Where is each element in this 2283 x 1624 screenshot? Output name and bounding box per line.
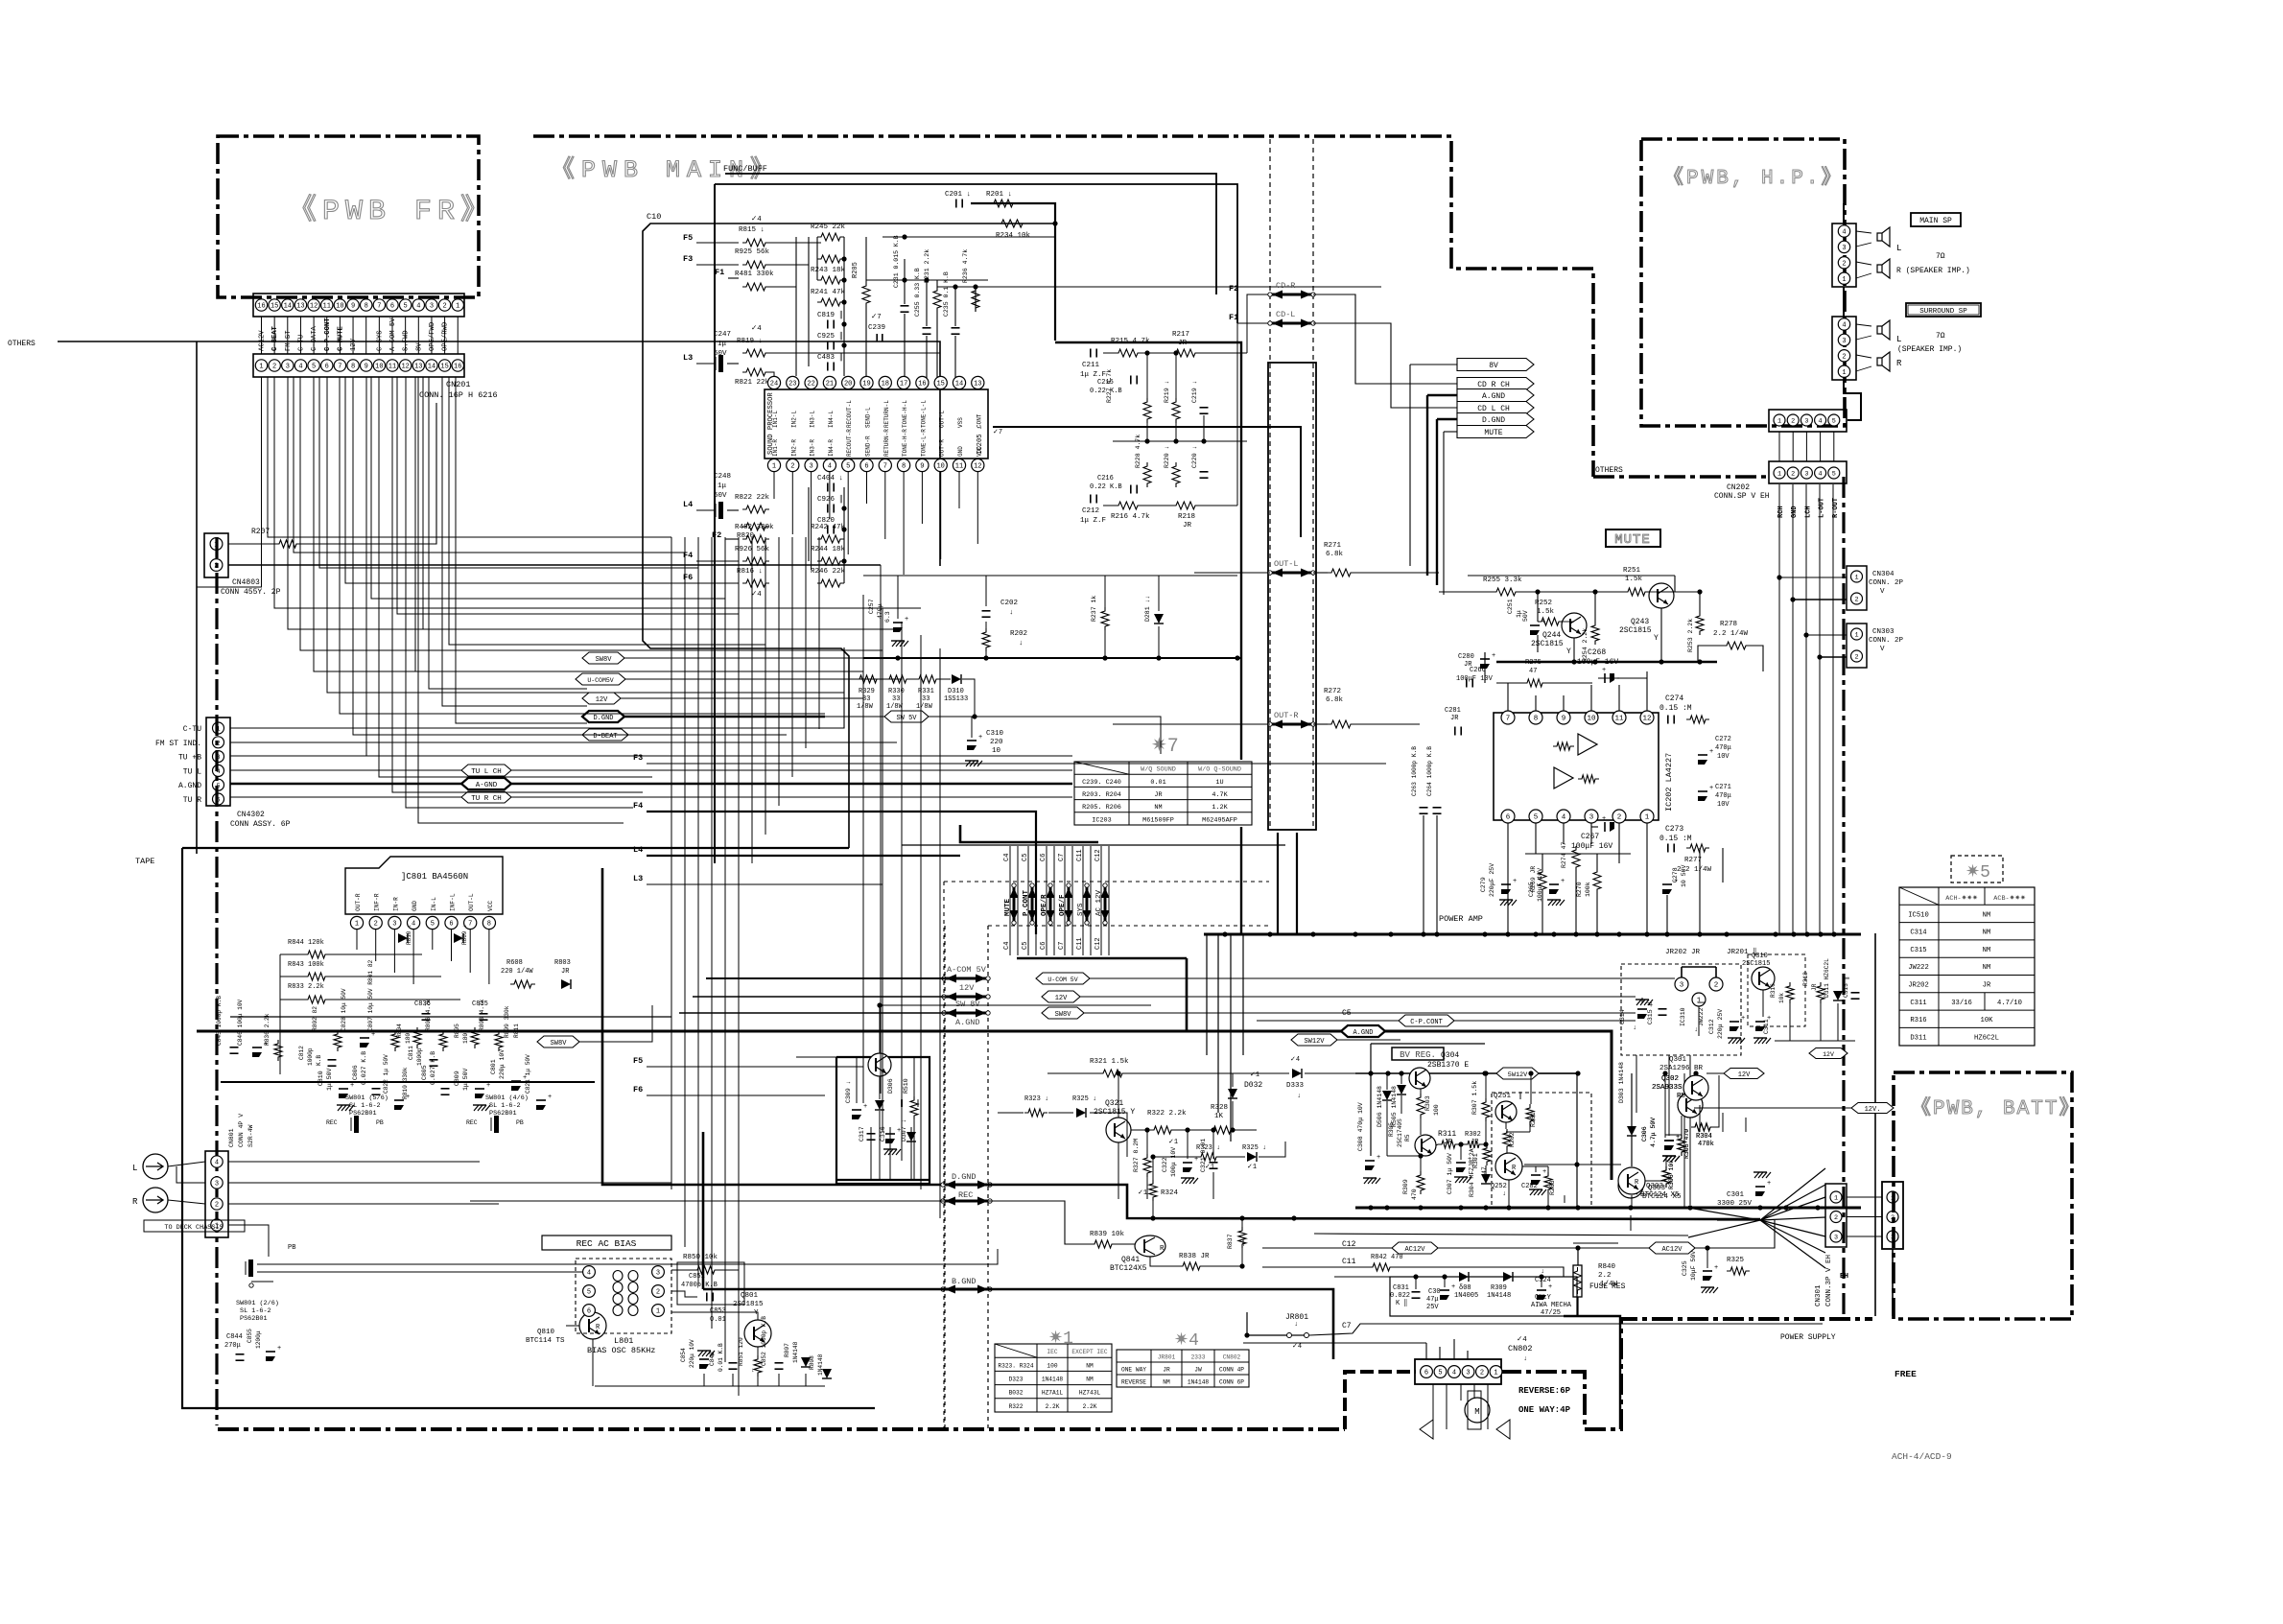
svg-text:15: 15 — [936, 381, 944, 388]
svg-text:F4: F4 — [633, 801, 643, 811]
svg-text:IN-L: IN-L — [431, 897, 437, 911]
svg-text:12V: 12V — [350, 338, 358, 351]
svg-text:10: 10 — [375, 364, 383, 371]
svg-text:+: + — [1492, 652, 1495, 660]
flag TU R CH — [230, 796, 1072, 798]
svg-text:5: 5 — [1832, 471, 1836, 479]
svg-text:C822 1μ 50V: C822 1μ 50V — [383, 1054, 389, 1094]
svg-text:10k: 10k — [1778, 993, 1785, 1003]
svg-text:6: 6 — [587, 1308, 591, 1316]
wire regulator feeds — [796, 1056, 836, 1058]
svg-text:10V: 10V — [1717, 801, 1730, 809]
svg-text:5: 5 — [1534, 814, 1539, 822]
svg-text:R: R — [1896, 359, 1902, 368]
svg-text:EXCEPT IEC: EXCEPT IEC — [1071, 1349, 1107, 1355]
wire to 5P connector — [1844, 380, 1861, 420]
L801 coils — [613, 1271, 623, 1282]
IC801 pin 6 — [445, 916, 458, 929]
svg-text:14: 14 — [284, 303, 292, 311]
wires CN202 down — [1778, 484, 1780, 577]
wires IC205 pins down — [773, 472, 775, 499]
svg-text:NM: NM — [1983, 964, 1991, 972]
svg-text:8: 8 — [351, 364, 355, 371]
svg-text:REC: REC — [326, 1119, 338, 1126]
connector CN801 4P — [205, 1151, 228, 1237]
svg-text:R842 470: R842 470 — [1371, 1254, 1403, 1261]
svg-text:C311: C311 — [1910, 1000, 1926, 1007]
svg-text:R325 ↓: R325 ↓ — [1242, 1144, 1266, 1152]
svg-text:JW: JW — [1194, 1367, 1202, 1374]
connector CN303 — [1847, 624, 1867, 668]
svg-text:2: 2 — [215, 1202, 219, 1210]
svg-text:1: 1 — [1834, 1195, 1838, 1203]
svg-text:F3: F3 — [633, 753, 643, 763]
svg-text:IN4-R: IN4-R — [828, 439, 835, 457]
svg-text:7Ω: 7Ω — [1936, 332, 1945, 341]
svg-text:GND: GND — [1791, 506, 1799, 518]
svg-text:CD-L: CD-L — [1276, 310, 1295, 319]
svg-text:0.15 :M: 0.15 :M — [1659, 704, 1692, 713]
svg-text:PS62B01: PS62B01 — [240, 1315, 268, 1323]
svg-text:C-MUTE: C-MUTE — [337, 325, 344, 351]
svg-text:BTC114 TS: BTC114 TS — [526, 1337, 565, 1345]
wires C202 block — [897, 576, 899, 619]
svg-text:CONT: CONT — [976, 413, 982, 428]
svg-text:100μF 16V: 100μF 16V — [1577, 658, 1618, 667]
svg-text:C846 100μ 10V: C846 100μ 10V — [237, 999, 244, 1046]
svg-text:3: 3 — [809, 463, 812, 471]
note *5 label — [1951, 856, 2003, 883]
svg-text:1: 1 — [656, 1308, 660, 1316]
svg-text:+: + — [1451, 1283, 1455, 1291]
capacitor C220 vertical — [1200, 471, 1209, 473]
svg-text:9: 9 — [920, 463, 924, 471]
op-amp U-upper — [1578, 734, 1597, 755]
svg-text:BTC124X5: BTC124X5 — [1110, 1264, 1147, 1273]
svg-text:POWER AMP: POWER AMP — [1439, 914, 1483, 924]
svg-text:3: 3 — [1466, 1370, 1470, 1377]
svg-text:C30: C30 — [1428, 1288, 1441, 1296]
svg-text:CONN. 16P H 6216: CONN. 16P H 6216 — [419, 390, 498, 400]
svg-text:7: 7 — [468, 921, 472, 929]
IC205 pin 22 — [805, 376, 817, 388]
wires 5P to CN202 — [1778, 432, 1780, 461]
L801 transformer dashed box — [576, 1259, 671, 1333]
svg-text:1: 1 — [1842, 276, 1846, 284]
svg-text:+: + — [1548, 1283, 1552, 1291]
svg-text:C853: C853 — [710, 1307, 726, 1315]
transistor Q321 — [1106, 1118, 1131, 1142]
svg-text:1: 1 — [1777, 418, 1781, 426]
svg-text:HZ6C2L: HZ6C2L — [1974, 1034, 1999, 1042]
svg-text:10K: 10K — [1981, 1017, 1994, 1024]
svg-text:4.7/10: 4.7/10 — [1997, 1000, 2022, 1007]
svg-text:2: 2 — [1791, 418, 1795, 426]
svg-text:Q251: Q251 — [1494, 1093, 1512, 1100]
svg-text:+: + — [1542, 619, 1545, 626]
svg-text:R: R — [132, 1197, 138, 1207]
svg-text:↓: ↓ — [751, 1367, 755, 1374]
IC205 pin 21 — [823, 376, 836, 388]
svg-text:C263 1000p K.B: C263 1000p K.B — [1411, 746, 1418, 796]
IC801 pin 1 — [350, 916, 363, 929]
IC801 pin 2 — [369, 916, 382, 929]
svg-text:50V: 50V — [1522, 610, 1529, 622]
svg-text:2333: 2333 — [1191, 1354, 1206, 1361]
svg-text:R218: R218 — [1178, 513, 1195, 521]
transistor Q303 — [1618, 1173, 1643, 1198]
svg-text:5: 5 — [846, 463, 850, 471]
resistor R821 — [742, 368, 769, 376]
svg-text:✷7: ✷7 — [1151, 736, 1179, 758]
wire CN4803 pin2 — [228, 564, 881, 566]
svg-text:220 1/4W: 220 1/4W — [501, 968, 533, 976]
svg-text:5: 5 — [312, 364, 316, 371]
svg-text:16: 16 — [918, 381, 926, 388]
svg-text:R482 330k: R482 330k — [735, 524, 774, 531]
PWB FR board outline — [218, 136, 479, 297]
wire heavy L from IC205 out — [993, 427, 1301, 537]
svg-text:HZ7A1L: HZ7A1L — [1042, 1390, 1064, 1397]
svg-text:2SC1815: 2SC1815 — [1531, 640, 1564, 648]
svg-text:1μ Z.F: 1μ Z.F — [1080, 371, 1106, 379]
wire SW5V right — [975, 717, 1161, 754]
svg-text:✓4: ✓4 — [1292, 1343, 1302, 1351]
svg-text:SW12V: SW12V — [1304, 1038, 1325, 1046]
svg-text:D333: D333 — [1286, 1082, 1305, 1090]
svg-text:0.022: 0.022 — [1390, 1292, 1410, 1300]
svg-text:W/Q SOUND: W/Q SOUND — [1141, 766, 1176, 774]
svg-text:R804: R804 — [396, 1024, 403, 1038]
wire thin pair to funnel — [1314, 1234, 1688, 1236]
svg-text:L: L — [132, 1164, 137, 1173]
svg-text:R820 ↓: R820 ↓ — [737, 532, 763, 540]
svg-text:C805: C805 — [421, 1065, 428, 1080]
svg-text:MUTE: MUTE — [1614, 532, 1651, 548]
svg-text:R510: R510 — [903, 1078, 909, 1094]
svg-text:RETURN-R: RETURN-R — [883, 429, 890, 457]
svg-text:+: + — [978, 734, 982, 741]
connector CN201 upper row — [253, 294, 464, 317]
main board bottom boundary — [218, 1427, 1345, 1431]
svg-text:6: 6 — [1506, 814, 1511, 822]
connector CN201 lower row — [253, 354, 464, 377]
svg-text:1N4148: 1N4148 — [817, 1353, 824, 1376]
svg-text:1: 1 — [259, 364, 263, 371]
svg-text:D-BEAT: D-BEAT — [593, 733, 617, 741]
svg-text:10: 10 — [936, 463, 944, 471]
svg-text:SW 8V: SW 8V — [955, 1000, 980, 1009]
svg-text:5: 5 — [1832, 418, 1836, 426]
cable bus bottom rail — [1017, 957, 1187, 960]
svg-text:R811: R811 — [513, 1024, 520, 1038]
svg-text:RECOUT-L: RECOUT-L — [846, 400, 853, 428]
svg-text:REC AC BIAS: REC AC BIAS — [577, 1238, 637, 1249]
svg-text:13: 13 — [974, 381, 981, 388]
IC801 pin 3 — [388, 916, 401, 929]
svg-text:220μ 10V: 220μ 10V — [499, 1049, 506, 1079]
svg-text:C202: C202 — [1000, 600, 1018, 607]
svg-text:A.GND: A.GND — [1482, 392, 1505, 401]
IC205 pin 2 — [787, 459, 799, 471]
IC202 pin 10 — [1585, 711, 1598, 724]
IC205 pin 23 — [787, 376, 799, 388]
svg-text:IN4-L: IN4-L — [828, 411, 835, 428]
svg-text:IN3-L: IN3-L — [810, 411, 816, 428]
wires IC310 block — [1641, 998, 1643, 1003]
flag A-GND — [230, 783, 1072, 786]
svg-text:F3: F3 — [683, 254, 693, 264]
svg-text:A.GND: A.GND — [178, 782, 201, 790]
svg-text:SURROUND SP: SURROUND SP — [1919, 308, 1967, 316]
wires between 3P connectors — [1847, 1196, 1882, 1198]
IC205 pin 14 — [953, 376, 965, 388]
IC202 pin 2 — [1612, 810, 1626, 823]
svg-text:2: 2 — [1714, 982, 1719, 990]
svg-text:TU R: TU R — [183, 796, 201, 805]
svg-text:C-P.CONT: C-P.CONT — [1410, 1019, 1443, 1026]
IC801 body — [345, 857, 503, 914]
svg-text:IN-R: IN-R — [392, 897, 399, 911]
svg-text:D306: D306 — [887, 1078, 894, 1094]
flag D.GND left — [582, 711, 624, 722]
svg-text:CONN 455Y. 2P: CONN 455Y. 2P — [221, 588, 281, 597]
svg-text:6: 6 — [390, 303, 394, 311]
svg-text:L3: L3 — [683, 353, 693, 363]
svg-text:C313 ║: C313 ║ — [1842, 977, 1849, 998]
svg-text:C-TU: C-TU — [297, 335, 305, 351]
svg-text:12V: 12V — [959, 983, 975, 993]
svg-text:C257: C257 — [868, 599, 875, 614]
svg-text:3: 3 — [215, 1181, 219, 1189]
svg-text:C247: C247 — [714, 331, 731, 339]
svg-text:CN201: CN201 — [446, 380, 471, 389]
svg-text:9: 9 — [1562, 716, 1566, 723]
capacitor C271 electrolytic — [1698, 790, 1707, 792]
svg-text:C317: C317 — [859, 1126, 865, 1142]
wires CN4302 to right — [230, 647, 844, 728]
svg-text:18: 18 — [882, 381, 889, 388]
dotted bus line left — [1269, 139, 1271, 830]
svg-text:2: 2 — [1617, 814, 1622, 822]
svg-text:Y: Y — [1566, 647, 1571, 656]
svg-text:CN4803: CN4803 — [232, 578, 260, 587]
svg-text:1N4148: 1N4148 — [1188, 1379, 1210, 1386]
svg-text:δ08: δ08 — [1459, 1284, 1471, 1292]
arrow AC 12V — [1104, 887, 1107, 921]
svg-text:REVERSE: REVERSE — [1121, 1379, 1146, 1386]
svg-text:C220 ↓: C220 ↓ — [1191, 446, 1198, 468]
flag A.GND — [1457, 389, 1534, 402]
wire CN201 drop bundle right turns — [274, 377, 921, 608]
svg-text:16: 16 — [454, 364, 461, 371]
svg-text:C12: C12 — [1094, 937, 1102, 950]
svg-text:R318: R318 — [1802, 972, 1809, 986]
svg-text:1SS133: 1SS133 — [944, 695, 968, 703]
svg-text:C278: C278 — [1672, 867, 1679, 883]
svg-text:3: 3 — [1804, 471, 1808, 479]
svg-text:JR: JR — [1183, 522, 1192, 530]
svg-text:FREE: FREE — [1895, 1369, 1917, 1379]
capacitor C211 — [1090, 349, 1092, 358]
IC310 dashed box — [1621, 964, 1741, 1055]
svg-text:R821 22k: R821 22k — [735, 379, 770, 387]
fuse resistor R840 — [1573, 1265, 1582, 1297]
wires IC202 bottom — [1507, 823, 1509, 934]
svg-text:220: 220 — [990, 739, 1003, 746]
svg-text:NM: NM — [1154, 804, 1162, 812]
svg-text:INF-L: INF-L — [450, 893, 457, 911]
svg-text:TU +B: TU +B — [178, 754, 201, 763]
svg-text:R323 ↓: R323 ↓ — [1024, 1095, 1048, 1103]
svg-text:4: 4 — [828, 463, 832, 471]
svg-text:D323: D323 — [1009, 1377, 1024, 1383]
IC205 body — [765, 389, 988, 459]
svg-text:U-COM 5V: U-COM 5V — [1047, 977, 1077, 983]
svg-text:R272: R272 — [1324, 688, 1341, 695]
svg-text:CN802: CN802 — [1223, 1354, 1241, 1361]
svg-text:C264 1000p K.B: C264 1000p K.B — [1426, 746, 1433, 796]
svg-text:AC12V: AC12V — [1404, 1246, 1425, 1254]
wires Q302 region — [1631, 1073, 1633, 1126]
svg-text:F5: F5 — [683, 233, 693, 243]
svg-text:R245 22k: R245 22k — [811, 224, 846, 231]
wire mesh horizontals from CN201 — [268, 377, 671, 537]
svg-text:OUT-R: OUT-R — [1274, 711, 1299, 720]
svg-text:R809 ↓: R809 ↓ — [461, 924, 468, 945]
svg-text:CONN 6P: CONN 6P — [1219, 1379, 1244, 1386]
svg-text:REC: REC — [958, 1190, 973, 1200]
wire power amp feeds down — [1206, 934, 1208, 1055]
capacitor C212 — [1090, 495, 1092, 504]
svg-text:1μ 50V: 1μ 50V — [462, 1068, 469, 1091]
flag MUTE — [1457, 426, 1534, 438]
svg-text:OPE/R: OPE/R — [1041, 894, 1048, 916]
svg-text:C-BEAT: C-BEAT — [271, 325, 279, 351]
svg-text:+: + — [1561, 878, 1565, 885]
svg-text:2: 2 — [1834, 1214, 1838, 1222]
wires jacks to CN801 — [168, 1162, 205, 1166]
IC202 pin 12 — [1640, 711, 1654, 724]
svg-text:ACH-✷✷✷: ACH-✷✷✷ — [1945, 894, 1978, 903]
svg-text:C6: C6 — [1040, 942, 1047, 950]
cable C7 vertical — [1064, 846, 1066, 955]
svg-text:CONN 4P V: CONN 4P V — [238, 1114, 245, 1147]
wires components to rail — [1423, 815, 1424, 934]
connector CN301 3P outer — [1882, 1182, 1903, 1249]
svg-text:BIAS OSC 85KHz: BIAS OSC 85KHz — [587, 1346, 655, 1355]
transistor Q841 — [1135, 1236, 1165, 1257]
wire main thick bus y357 — [1055, 342, 1241, 760]
svg-text:4: 4 — [298, 364, 302, 371]
svg-text:2: 2 — [656, 1289, 660, 1297]
svg-text:ACB-✷✷✷: ACB-✷✷✷ — [1993, 894, 2026, 903]
svg-text:+: + — [1602, 667, 1606, 674]
svg-text:R327 8.2M: R327 8.2M — [1133, 1139, 1140, 1172]
svg-text:R329: R329 — [859, 688, 875, 695]
svg-text:D032: D032 — [1244, 1081, 1262, 1090]
svg-text:OTHERS: OTHERS — [8, 340, 35, 348]
svg-text:《PWB FR》: 《PWB FR》 — [288, 195, 495, 228]
svg-text:K ║: K ║ — [1396, 1299, 1408, 1307]
svg-text:✷4: ✷4 — [1174, 1331, 1199, 1351]
svg-text:SW8V: SW8V — [596, 656, 613, 664]
IC205 pin 7 — [879, 459, 891, 471]
svg-text:Q252: Q252 — [1491, 1183, 1507, 1190]
wire left long vertical x745 — [714, 184, 716, 863]
svg-text:REVERSE:6P: REVERSE:6P — [1518, 1386, 1571, 1396]
svg-text:✓1: ✓1 — [1250, 1071, 1259, 1079]
svg-text:HZ743L: HZ743L — [1079, 1390, 1101, 1397]
svg-text:↓: ↓ — [1009, 609, 1014, 617]
svg-text:R271: R271 — [1324, 542, 1342, 550]
svg-text:IN1-L: IN1-L — [772, 411, 779, 428]
svg-text:R322: R322 — [1009, 1403, 1024, 1410]
svg-text:C806: C806 — [352, 1065, 359, 1080]
capacitor C278 electrolytic — [1662, 883, 1672, 885]
svg-text:R805: R805 — [454, 1024, 460, 1038]
svg-text:8: 8 — [902, 463, 906, 471]
dashed box Q251 — [1492, 1093, 1591, 1207]
svg-text:4: 4 — [1819, 471, 1823, 479]
cable C12 vertical — [1100, 846, 1102, 955]
wire from outer conn down — [1892, 1249, 1894, 1316]
svg-text:R202: R202 — [1010, 630, 1027, 638]
flag 12V IC310 — [1809, 1048, 1848, 1059]
wire OUT-R entry — [1113, 723, 1270, 725]
svg-text:2: 2 — [1842, 353, 1846, 361]
IC202 pin 5 — [1529, 810, 1542, 823]
svg-text:3: 3 — [430, 303, 434, 311]
IC205 pin 6 — [860, 459, 873, 471]
svg-text:D303 1N4148: D303 1N4148 — [1618, 1062, 1625, 1103]
IC205 pin 10 — [934, 459, 947, 471]
label SURROUND SP — [1906, 303, 1981, 317]
svg-text:OUT-L: OUT-L — [1274, 559, 1299, 569]
svg-text:RECOUT-R: RECOUT-R — [846, 429, 853, 457]
wires fuse block — [1334, 1276, 1458, 1278]
svg-text:23: 23 — [788, 381, 796, 388]
svg-text:220μF 25V: 220μF 25V — [1489, 863, 1495, 897]
svg-text:2SA933S: 2SA933S — [1652, 1084, 1683, 1092]
svg-text:JR202 JR: JR202 JR — [1665, 949, 1701, 956]
svg-text:7: 7 — [883, 463, 887, 471]
svg-text:C925 ║: C925 ║ — [817, 331, 843, 341]
transistor Q301 — [1683, 1075, 1708, 1100]
svg-text:+: + — [486, 1082, 490, 1090]
svg-text:C811: C811 — [408, 1046, 414, 1060]
svg-text:1N4148: 1N4148 — [792, 1341, 799, 1363]
svg-text:Q302: Q302 — [1661, 1075, 1679, 1083]
svg-text:50V: 50V — [714, 492, 727, 500]
svg-text:OUT-R: OUT-R — [939, 439, 946, 457]
wires Q321 — [1047, 1072, 1099, 1074]
svg-text:R241 47k: R241 47k — [811, 289, 846, 296]
svg-text:100μF 16V: 100μF 16V — [1571, 842, 1612, 851]
IC202 body — [1494, 713, 1659, 820]
svg-text:C308 470μ 10V: C308 470μ 10V — [1357, 1102, 1364, 1151]
svg-text:6: 6 — [1424, 1370, 1428, 1377]
svg-text:R303: R303 — [1424, 1095, 1431, 1111]
svg-text:F1: F1 — [1229, 313, 1238, 322]
svg-text:25C1740S: 25C1740S — [1397, 1118, 1403, 1147]
svg-text:AC12V: AC12V — [259, 330, 267, 351]
svg-text:C4: C4 — [1003, 942, 1011, 950]
svg-text:A-GND: A-GND — [476, 782, 498, 789]
svg-text:TU L: TU L — [183, 767, 201, 776]
svg-text:47/25: 47/25 — [1541, 1309, 1561, 1317]
svg-text:2: 2 — [1854, 654, 1858, 662]
